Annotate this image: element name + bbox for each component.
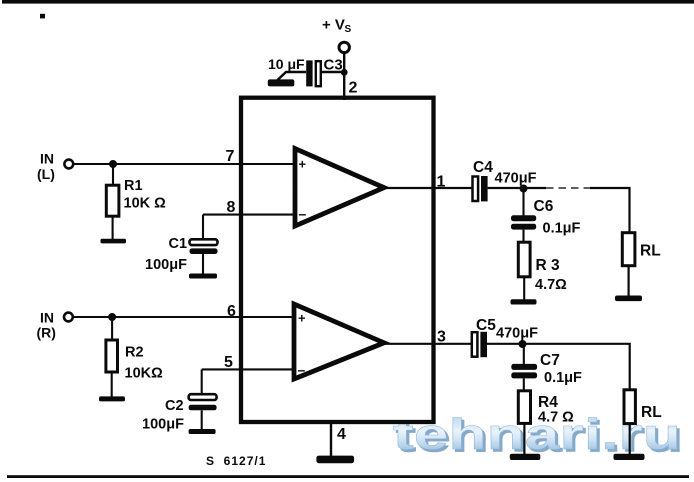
ground under RL (upper) xyxy=(615,296,642,302)
node junction C6 xyxy=(520,185,528,193)
resistor R2 xyxy=(106,340,163,382)
svg-text:S: S xyxy=(345,24,352,35)
wire R1 to ground xyxy=(112,216,114,239)
svg-text:10K Ω: 10K Ω xyxy=(124,196,167,212)
svg-text:100μF: 100μF xyxy=(145,257,187,273)
svg-text:4.7 Ω: 4.7 Ω xyxy=(538,410,574,426)
svg-text:–: – xyxy=(298,362,306,378)
resistor R4 xyxy=(518,391,574,426)
wire +Vs to pin 2 xyxy=(343,53,345,100)
wire node to C7 xyxy=(523,344,525,364)
node junction C7 xyxy=(519,340,527,348)
wire RL to ground xyxy=(627,266,629,296)
ground under R1 xyxy=(101,239,127,244)
wire pin 8 to op-amp U1a - input xyxy=(203,214,296,216)
ground under RL (lower) xyxy=(614,454,645,460)
ground under C2 xyxy=(189,429,216,434)
svg-text:R2: R2 xyxy=(125,345,144,361)
svg-text:RL: RL xyxy=(641,404,662,421)
svg-text:+: + xyxy=(298,311,306,326)
capacitor C6 xyxy=(511,198,581,237)
svg-text:(R): (R) xyxy=(37,325,56,341)
capacitor C1 xyxy=(145,236,218,273)
svg-text:0.1μF: 0.1μF xyxy=(543,221,581,237)
terminal IN (L) xyxy=(37,151,73,183)
svg-text:C5: C5 xyxy=(476,317,496,334)
wire IN(R) to pin 6 and op-amp U1b + input xyxy=(73,316,295,318)
wire C5 to node and RL xyxy=(487,344,630,390)
svg-text:C1: C1 xyxy=(169,236,188,252)
wire C3 to ground xyxy=(278,72,307,80)
svg-text:IN: IN xyxy=(40,310,54,326)
ground under R4 xyxy=(510,454,541,460)
svg-text:5: 5 xyxy=(224,354,233,371)
capacitor C5 xyxy=(472,317,538,357)
wire node to C6 xyxy=(522,189,524,216)
svg-text:IN: IN xyxy=(40,151,54,167)
svg-text:C2: C2 xyxy=(165,398,184,414)
svg-text:(L): (L) xyxy=(37,166,55,182)
op-amp U1a xyxy=(295,149,384,227)
wire op-amp U1b output to pin 3 and C5 xyxy=(383,343,472,345)
node junction R2 xyxy=(108,313,116,321)
wire op-amp U1a output to pin 1 and C4 xyxy=(383,187,473,189)
capacitor C3 xyxy=(268,56,343,86)
terminal IN (R) xyxy=(37,310,73,341)
svg-text:C6: C6 xyxy=(534,198,554,215)
IC U1 outline xyxy=(241,98,434,422)
wire junction to R1 xyxy=(112,164,114,186)
svg-text:8: 8 xyxy=(227,199,236,216)
wire pin 5 down to C2 xyxy=(201,369,203,394)
wire pin 5 to op-amp U1b - input xyxy=(202,368,295,370)
wire C6 to R3 xyxy=(522,230,524,243)
svg-text:R4: R4 xyxy=(538,394,558,411)
svg-text:–: – xyxy=(299,206,307,222)
wire pin 8 down to C1 xyxy=(202,215,204,240)
wire pin 4 to ground xyxy=(330,421,332,457)
svg-text:R1: R1 xyxy=(124,178,143,194)
svg-text:470μF: 470μF xyxy=(495,171,537,187)
wire C3 to junction xyxy=(321,71,345,73)
resistor R3 xyxy=(518,242,567,293)
node junction C3 xyxy=(341,69,348,76)
load resistor RL (lower) xyxy=(624,390,662,424)
svg-text:C4: C4 xyxy=(473,159,493,176)
capacitor C7 xyxy=(511,352,582,386)
wire C2 to ground xyxy=(201,410,203,430)
terminal +Vs xyxy=(322,17,352,53)
wire C1 to ground xyxy=(202,254,204,275)
ground under R3 xyxy=(511,299,537,304)
svg-text:6: 6 xyxy=(227,303,236,320)
wire IN(L) to pin 7 and op-amp U1a + input xyxy=(74,163,296,165)
svg-text:tehnari.ru: tehnari.ru xyxy=(393,411,681,459)
svg-text:C7: C7 xyxy=(540,352,560,369)
svg-text:S 6127/1: S 6127/1 xyxy=(206,454,266,468)
svg-text:RL: RL xyxy=(640,243,661,260)
svg-text:+: + xyxy=(299,157,307,172)
wire RL lower to ground xyxy=(629,424,631,455)
node junction R1 xyxy=(109,160,117,168)
svg-text:0.1μF: 0.1μF xyxy=(544,370,582,386)
capacitor C4 xyxy=(473,159,537,201)
svg-text:10KΩ: 10KΩ xyxy=(125,366,164,382)
svg-text:3: 3 xyxy=(437,329,446,346)
svg-text:7: 7 xyxy=(226,148,235,165)
svg-text:4.7Ω: 4.7Ω xyxy=(535,277,567,293)
wire junction to R2 xyxy=(111,317,113,341)
resistor R1 xyxy=(106,178,166,216)
wire R3 to ground xyxy=(523,277,525,300)
svg-text:470μF: 470μF xyxy=(496,326,538,342)
wire R4 to ground xyxy=(523,423,525,455)
ground left of C3 xyxy=(268,79,295,86)
svg-text:2: 2 xyxy=(349,80,358,97)
wire R2 to ground xyxy=(111,372,113,397)
svg-text:R 3: R 3 xyxy=(536,257,561,274)
ground under pin 4 xyxy=(316,456,354,464)
capacitor C2 xyxy=(142,394,217,432)
wire C7 to R4 xyxy=(523,378,525,391)
op-amp U1b xyxy=(294,304,384,379)
load resistor RL (upper) xyxy=(622,233,660,266)
wire C4 to node and RL xyxy=(488,187,546,189)
svg-text:+ V: + V xyxy=(322,17,345,34)
ground under C1 xyxy=(189,274,217,279)
ground under R2 xyxy=(99,396,125,401)
svg-text:100μF: 100μF xyxy=(142,417,184,433)
svg-text:C3: C3 xyxy=(324,57,343,74)
svg-text:1: 1 xyxy=(437,174,446,191)
svg-text:4: 4 xyxy=(337,426,346,443)
svg-text:10 μF: 10 μF xyxy=(268,56,305,72)
